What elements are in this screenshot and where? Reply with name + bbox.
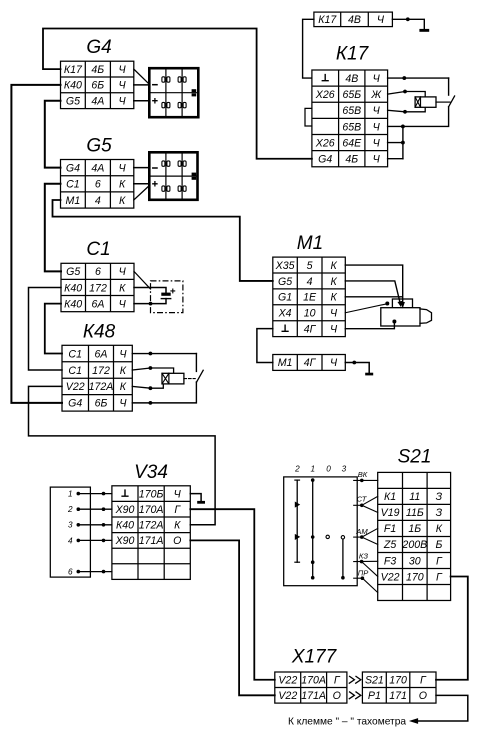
wire K17.3 to relay coil (388, 107, 426, 112)
svg-text:4Г: 4Г (304, 357, 317, 369)
svg-text:172А: 172А (139, 520, 164, 532)
svg-text:Х26: Х26 (315, 137, 335, 149)
battery GB (G4) internal partitions (165, 68, 167, 117)
svg-text:К: К (330, 292, 337, 304)
svg-text:0: 0 (326, 464, 331, 473)
svg-text:V19: V19 (381, 507, 400, 519)
svg-text:К: К (174, 520, 181, 532)
svg-text:К: К (436, 523, 443, 535)
relay K17 contact fixed lead (448, 78, 450, 95)
svg-text:G5: G5 (86, 136, 112, 157)
svg-text:Б: Б (435, 539, 442, 551)
svg-text:Ч: Ч (330, 324, 338, 336)
svg-text:Ч: Ч (373, 105, 381, 117)
battery GB (G5) minus label (153, 167, 157, 169)
battery GB (G4) case (149, 68, 198, 117)
svg-text:1: 1 (68, 490, 73, 499)
svg-text:Ч: Ч (373, 137, 381, 149)
svg-text:200В: 200В (401, 539, 427, 551)
battery GB (G5) side terminal (192, 173, 197, 176)
battery GB (G5) case (149, 152, 197, 200)
relay block K48 pin table (62, 345, 132, 411)
svg-text:М1: М1 (297, 233, 323, 254)
wire M1.5 to motor body (345, 322, 394, 329)
capacitor block C1 pin table (61, 263, 134, 311)
vertical joining K17.4 K17.5 K17.6 (402, 126, 404, 158)
svg-text:К17: К17 (336, 44, 370, 65)
wire 4: G5.3 to M1.2 (53, 200, 273, 281)
svg-text:6А: 6А (92, 298, 105, 310)
connector block G4 pin table (61, 61, 134, 108)
V34 plug housing (50, 487, 90, 577)
switch S21 position bar 3 (341, 536, 344, 539)
svg-text:G4: G4 (68, 398, 82, 410)
wire 4А: G4.3 to G5.1 (45, 101, 61, 168)
wire G5.2 to battery plus (134, 183, 150, 185)
connector X177 mating chevrons row 1 (349, 676, 354, 683)
svg-text:С1: С1 (66, 179, 80, 191)
switch block S21 pin table (378, 472, 451, 600)
wire M1.1 to motor terminal (arrow) (345, 265, 402, 302)
svg-text:4В: 4В (345, 73, 358, 85)
svg-text:С1: С1 (68, 348, 82, 360)
svg-text:КЗ: КЗ (359, 551, 368, 560)
connector X177 left half table (275, 672, 347, 703)
svg-text:10: 10 (304, 308, 316, 320)
svg-text:G5: G5 (278, 276, 292, 288)
svg-text:К1: К1 (384, 491, 396, 503)
svg-text:1Б: 1Б (408, 523, 421, 535)
svg-text:С1: С1 (68, 365, 82, 377)
capacitor C2 plates (161, 293, 170, 296)
electronic unit V34 pin table (112, 486, 190, 580)
svg-text:V34: V34 (134, 462, 168, 483)
svg-text:6: 6 (68, 568, 73, 577)
svg-text:170А: 170А (139, 504, 164, 516)
svg-text:3: 3 (342, 464, 347, 473)
svg-text:G5: G5 (66, 96, 80, 108)
relay K17 coil-contact link (436, 101, 450, 103)
ground at V34 pin 170Б (190, 494, 201, 501)
svg-text:30: 30 (409, 555, 421, 567)
connector X177 mating chevrons row 2 (349, 692, 354, 699)
relay K17 contact arm (449, 96, 455, 107)
svg-text:V22: V22 (381, 571, 400, 583)
relay K48 contact fixed lead (195, 354, 197, 372)
motor M1 terminal box (392, 299, 412, 308)
tachometer arrowhead (411, 719, 418, 723)
svg-text:170А: 170А (301, 675, 326, 687)
wire К17 4В row to K17.1 (303, 19, 314, 78)
svg-text:G5: G5 (66, 266, 80, 278)
svg-text:Х4: Х4 (278, 308, 292, 320)
wire C1.3 to capacitor plate (134, 299, 166, 304)
wire C1.2 to capacitor plate (134, 287, 166, 292)
svg-text:64Е: 64Е (342, 137, 362, 149)
svg-text:4Б: 4Б (345, 154, 358, 166)
svg-text:6А: 6А (95, 348, 108, 360)
svg-text:2: 2 (294, 464, 300, 473)
svg-text:К40: К40 (116, 520, 134, 532)
svg-text:К48: К48 (83, 322, 116, 343)
svg-text:К40: К40 (64, 282, 82, 294)
battery GB (G5) internal partitions (165, 152, 167, 200)
svg-text:К: К (120, 381, 127, 393)
wire C1.1 to capacitor case (diagonal) (134, 271, 151, 289)
svg-text:Х90: Х90 (115, 504, 135, 516)
svg-text:Ч: Ч (119, 80, 127, 92)
svg-text:К клемме " – " тахометра: К клемме " – " тахометра (288, 717, 406, 728)
svg-text:4А: 4А (91, 96, 104, 108)
battery GB (G4) plus label (153, 99, 157, 103)
wire 4Б: G4.1 to K17.6 (43, 29, 312, 159)
motor M1 nose (420, 309, 432, 323)
svg-text:170Б: 170Б (139, 488, 164, 500)
switch S21 mechanism housing (284, 477, 358, 586)
svg-text:4Б: 4Б (91, 64, 104, 76)
svg-text:S21: S21 (365, 675, 384, 687)
svg-text:Ч: Ч (330, 357, 338, 369)
svg-text:172: 172 (92, 365, 110, 377)
motor M1 body (381, 308, 420, 326)
wire relay contact to K48.4 (132, 382, 196, 403)
svg-text:65В: 65В (342, 121, 361, 133)
svg-text:Х35: Х35 (275, 260, 295, 272)
svg-text:З: З (436, 491, 443, 503)
svg-text:G1: G1 (278, 292, 292, 304)
wire G5.3 to battery plus (diagonal) (134, 186, 150, 200)
svg-text:172: 172 (89, 282, 107, 294)
svg-text:11: 11 (409, 491, 420, 503)
wire K48.1 to relay contact (132, 353, 196, 355)
junction dot on capacitor case (149, 302, 153, 306)
svg-text:З: З (436, 507, 443, 519)
battery GB (G5) cell symbols (162, 161, 165, 166)
svg-text:65Б: 65Б (342, 89, 361, 101)
svg-text:4Г: 4Г (304, 324, 317, 336)
svg-text:К: К (120, 365, 127, 377)
svg-text:4: 4 (68, 536, 73, 545)
svg-text:К: К (330, 260, 337, 272)
wire G4.3 to battery plus (134, 100, 150, 102)
connector block G5 pin table (61, 160, 134, 209)
wire relay contact to K17.4 (388, 107, 449, 127)
relay K17 coil (415, 97, 436, 107)
wire 6Б: G4.2 to K48.4 (11, 85, 62, 403)
svg-text:О: О (419, 690, 427, 702)
svg-text:К: К (119, 195, 126, 207)
svg-text:ПР: ПР (358, 569, 370, 578)
svg-text:Ч: Ч (119, 348, 127, 360)
relay K48 contact arm (197, 370, 204, 382)
battery GB (G5) plus label (153, 182, 157, 186)
wire G5.1 to battery minus (134, 167, 150, 169)
svg-text:Ч: Ч (119, 398, 127, 410)
svg-text:F1: F1 (384, 523, 396, 535)
motor unit M1 pin table (273, 257, 346, 337)
svg-text:Ж: Ж (370, 89, 382, 101)
relay K48 coil (162, 373, 184, 384)
wire М1 4Г row to ground (345, 363, 369, 373)
svg-text:Х90: Х90 (115, 535, 135, 547)
svg-text:Ч: Ч (119, 266, 127, 278)
relay block K17 pin table (312, 70, 388, 167)
wire K17.1 to relay contact (388, 77, 449, 79)
battery GB (G4) minus label (153, 84, 157, 86)
capacitor C1 screen (dash-dot case) (151, 281, 183, 313)
svg-text:К17: К17 (64, 64, 83, 76)
wire 172: C1.2 to K48.2 (29, 287, 63, 369)
svg-text:171А: 171А (301, 690, 326, 702)
battery GB (G4) cell symbols (162, 77, 165, 82)
svg-text:К: К (119, 179, 126, 191)
battery GB (G4) side terminal (192, 89, 197, 92)
svg-text:V22: V22 (278, 690, 297, 702)
svg-text:О: О (173, 535, 181, 547)
wire 6: G5.2 to C1.1 (45, 184, 61, 272)
svg-text:170: 170 (406, 571, 424, 583)
svg-text:171А: 171А (139, 535, 164, 547)
svg-text:171: 171 (389, 690, 407, 702)
svg-text:М1: М1 (66, 195, 81, 207)
svg-text:Х26: Х26 (315, 89, 335, 101)
svg-text:S21: S21 (398, 447, 432, 468)
wire К17 4В row to ground (392, 19, 424, 29)
wire K48.2 to relay coil (132, 368, 173, 373)
wire 6А: C1.3 to K48.1 (45, 304, 62, 354)
wire K17.2 to relay coil (388, 92, 426, 97)
wire M1.4 to motor terminal (pointer) (345, 304, 386, 313)
svg-text:К17: К17 (318, 14, 337, 26)
svg-text:4: 4 (95, 195, 101, 207)
wire M1.3 to motor terminal (345, 296, 401, 298)
svg-text:6: 6 (95, 179, 101, 191)
svg-text:4В: 4В (348, 14, 361, 26)
svg-text:2: 2 (67, 505, 73, 514)
capacitor plus mark (171, 289, 175, 293)
svg-text:4: 4 (307, 276, 313, 288)
svg-text:Ч: Ч (373, 73, 381, 85)
wire K17.5 to common vertical (388, 142, 403, 144)
svg-text:170: 170 (389, 675, 407, 687)
svg-text:G4: G4 (318, 154, 332, 166)
svg-text:К: К (330, 276, 337, 288)
remote pin row К17/4В (title row) (314, 12, 393, 27)
wire 172А: K48.3 to V34.3 (29, 386, 216, 524)
svg-text:3: 3 (68, 521, 73, 530)
svg-text:Ч: Ч (377, 14, 385, 26)
svg-text:G4: G4 (66, 162, 80, 174)
svg-text:Р1: Р1 (368, 690, 381, 702)
switch S21 position bar 2 (296, 480, 298, 562)
svg-text:К: К (119, 282, 126, 294)
svg-text:О: О (333, 690, 341, 702)
relay K48 mechanical link (dashed) (184, 378, 195, 380)
svg-text:6Б: 6Б (95, 398, 108, 410)
switch S21 position bar 1 (312, 480, 314, 578)
svg-text:Ч: Ч (174, 488, 182, 500)
svg-text:65В: 65В (342, 105, 361, 117)
svg-text:С1: С1 (86, 239, 110, 260)
svg-text:11Б: 11Б (406, 507, 424, 519)
svg-text:Ч: Ч (373, 154, 381, 166)
wire 170: S21 V22 pin to X177 (436, 576, 468, 679)
svg-text:4А: 4А (91, 162, 104, 174)
svg-text:6Б: 6Б (91, 80, 104, 92)
remote pin row М1/4Г (273, 355, 346, 371)
wire 170А: V34.2 to X177 (190, 509, 274, 680)
wire K17.6 to common vertical (388, 158, 403, 160)
svg-text:К40: К40 (64, 298, 82, 310)
svg-text:Х177: Х177 (291, 647, 338, 668)
svg-text:V22: V22 (66, 381, 85, 393)
wire K48.3 to relay coil (132, 384, 163, 388)
switch S21 position 0 contact (326, 535, 329, 538)
wire G4.1 to battery minus (diagonal) (134, 69, 150, 84)
svg-text:М1: М1 (278, 357, 293, 369)
svg-text:Ч: Ч (373, 121, 381, 133)
wire 171А: V34.4 to X177 (190, 540, 274, 695)
svg-text:G4: G4 (86, 37, 111, 58)
svg-text:1Е: 1Е (303, 292, 317, 304)
wire M1.5 to М1 4Г row (257, 329, 273, 363)
svg-text:V22: V22 (278, 675, 297, 687)
svg-text:СТ: СТ (357, 494, 368, 503)
wire 171: X177 to tachometer (415, 695, 468, 721)
svg-text:1: 1 (311, 464, 316, 473)
svg-text:Ч: Ч (119, 162, 127, 174)
svg-text:Ч: Ч (119, 64, 127, 76)
svg-text:Z5: Z5 (383, 539, 396, 551)
svg-text:К40: К40 (64, 80, 82, 92)
svg-text:6: 6 (95, 266, 101, 278)
svg-text:172А: 172А (89, 381, 114, 393)
svg-text:Ч: Ч (330, 308, 338, 320)
K17 bracket joining pins 65В (305, 108, 312, 126)
wire G4.2 to battery minus (134, 84, 150, 86)
svg-text:F3: F3 (384, 555, 396, 567)
svg-text:ВК: ВК (358, 470, 368, 479)
svg-text:Ч: Ч (119, 298, 127, 310)
wire M1.2 to motor terminal (arrow) (345, 281, 400, 304)
svg-text:5: 5 (307, 260, 313, 272)
connector X177 right half table (362, 672, 436, 703)
svg-text:Ч: Ч (119, 96, 127, 108)
